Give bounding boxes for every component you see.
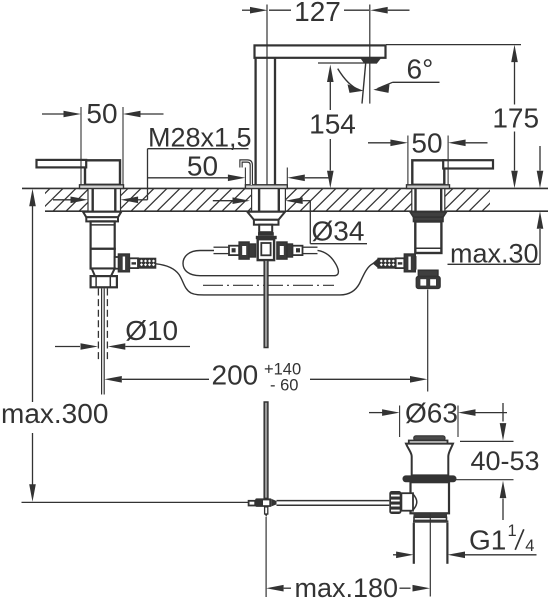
M28 thread arrows — [53, 199, 71, 201]
extension line spout axis — [266, 5, 268, 185]
right handle deck hole — [412, 188, 445, 211]
dimension 154 (outlet height) — [327, 65, 334, 83]
hose centerline (dash-dot) — [203, 284, 334, 286]
spout horizontal bar — [255, 45, 386, 57]
left hose nut washer — [129, 258, 138, 268]
svg-text:154: 154 — [309, 109, 356, 140]
dimension Ø63 (drain flange) — [399, 406, 401, 438]
svg-text:6°: 6° — [407, 54, 434, 85]
svg-text:1: 1 — [508, 522, 517, 540]
svg-text:127: 127 — [294, 0, 341, 27]
hose loop outer — [156, 262, 377, 295]
left valve tube — [91, 221, 115, 248]
tee left hose lines — [214, 246, 230, 248]
extension line spout top — [386, 44, 521, 46]
right valve body — [415, 222, 441, 254]
tee right nipple nut — [277, 242, 287, 259]
svg-text:200: 200 — [212, 360, 259, 391]
tee top bands — [258, 232, 274, 236]
spout stem — [259, 225, 272, 233]
dimension Ø34 (spout shank) — [213, 200, 233, 202]
left hose braid — [138, 258, 156, 268]
svg-text:50: 50 — [411, 127, 442, 158]
pull rod lower — [264, 402, 268, 498]
dimension 127 (spout reach) — [242, 9, 251, 11]
left valve hex coupling — [91, 276, 117, 287]
dimension 200 +140 -60 (handle distance) — [104, 376, 122, 383]
tee left nipple nut — [239, 242, 249, 259]
dimension max.180 (drain offset) — [266, 585, 284, 592]
svg-text:max.180: max.180 — [295, 573, 399, 600]
pop-up knob above deck — [241, 161, 251, 185]
svg-text:M28x1,5: M28x1,5 — [148, 122, 252, 152]
drain flange ring — [403, 475, 457, 482]
right hose coupling nut — [404, 254, 415, 272]
counter top line — [22, 187, 548, 189]
spout body right edge — [274, 58, 276, 185]
pull rod stub — [265, 507, 268, 514]
svg-text:50: 50 — [86, 98, 117, 129]
svg-text:40-53: 40-53 — [471, 446, 540, 476]
svg-text:175: 175 — [492, 103, 539, 134]
right valve hex coupling — [416, 277, 440, 289]
reference line to drain — [22, 501, 249, 503]
drain tail dark band — [414, 513, 448, 517]
spout outlet (aerator) — [361, 58, 382, 63]
right hose braid — [378, 258, 396, 268]
spout locknut — [247, 212, 285, 220]
tee right hose lines — [303, 246, 318, 248]
dimension 50 right handle — [407, 136, 409, 185]
counter hatching — [27, 188, 505, 211]
right hose nut washer — [396, 258, 405, 268]
extension line right valve axis — [427, 290, 429, 392]
svg-text:G1: G1 — [469, 524, 506, 555]
left hose coupling nut — [118, 254, 129, 272]
leader for 6 degrees — [393, 81, 440, 83]
svg-text:50: 50 — [187, 151, 218, 182]
left mounting rod core — [101, 289, 103, 395]
left handle escutcheon — [80, 185, 124, 189]
right valve lower band — [418, 270, 438, 276]
spout deck hole — [252, 188, 286, 211]
dimension max.30 (deck thickness) — [539, 146, 541, 171]
dimension 50 spout escutcheon — [244, 168, 246, 185]
dimension 50 left handle — [80, 107, 82, 184]
left hose port — [115, 257, 120, 269]
pull rod upper — [264, 260, 268, 347]
drain knurled knob — [389, 491, 401, 514]
tee right nipple — [293, 246, 303, 255]
dimension 40-53 (deck range) — [502, 403, 504, 422]
extension line outlet axis — [369, 5, 371, 104]
svg-text:max.300: max.300 — [1, 398, 108, 429]
drain funnel — [406, 444, 453, 476]
spout underside line — [318, 62, 377, 64]
left mounting rod hidden (dashed) — [97, 289, 99, 362]
faucet centerline lower — [265, 517, 267, 597]
svg-text:Ø63: Ø63 — [405, 398, 458, 429]
svg-text:max.30: max.30 — [450, 238, 539, 268]
drain knob socket — [401, 493, 413, 511]
mixer tee body — [258, 239, 274, 260]
left valve taper — [92, 269, 115, 277]
tee left washer — [249, 244, 255, 257]
svg-text:Ø34: Ø34 — [312, 216, 365, 247]
tee right striped nut — [287, 244, 293, 257]
spout body left edge — [254, 58, 256, 185]
spout escutcheon — [245, 185, 287, 189]
pull rod coupling — [249, 501, 256, 506]
left valve locknut — [83, 212, 121, 217]
drain centerline — [429, 514, 431, 597]
hose loop inner — [183, 250, 338, 275]
6-degree arc with arrowhead — [338, 69, 359, 90]
dimension 175 (total height) — [511, 45, 518, 63]
left valve elbow — [91, 249, 115, 269]
drain tail groove — [414, 517, 447, 520]
svg-text:Ø10: Ø10 — [125, 315, 178, 346]
right handle escutcheon — [407, 185, 450, 189]
svg-text:4: 4 — [525, 537, 534, 555]
right valve locknut — [410, 212, 447, 217]
drain body — [411, 482, 450, 513]
right handle body — [412, 160, 444, 185]
svg-text:- 60: - 60 — [270, 377, 298, 395]
drain tail dark edge — [413, 520, 448, 522]
6-degree tilted jet line — [362, 62, 366, 104]
pop-up actuating rod — [277, 500, 390, 502]
dimension G1 1/4 (thread) — [393, 554, 401, 556]
tee left nipple — [229, 246, 239, 255]
counter bottom line — [45, 210, 548, 212]
right hose port — [411, 257, 415, 269]
drain tailpipe — [413, 523, 415, 564]
left handle lever — [37, 160, 87, 168]
drain plug cap — [414, 436, 445, 441]
right handle lever — [443, 160, 493, 168]
left handle body — [85, 160, 120, 185]
left handle deck hole — [88, 188, 121, 211]
